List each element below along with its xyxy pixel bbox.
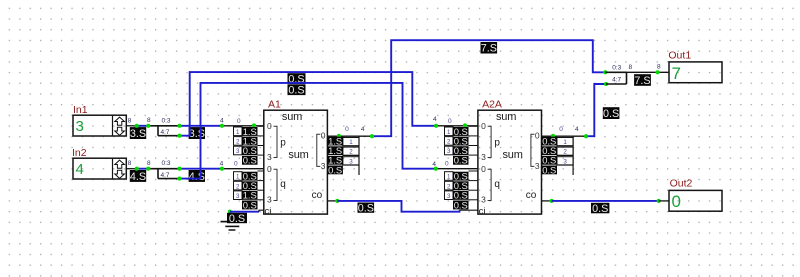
svg-text:8: 8 bbox=[128, 160, 132, 167]
svg-text:0.S: 0.S bbox=[542, 164, 556, 175]
A2A output pin cell 2 bbox=[557, 147, 573, 155]
svg-text:0: 0 bbox=[672, 192, 681, 211]
svg-text:4: 4 bbox=[361, 126, 365, 133]
node A2A p in bbox=[434, 124, 438, 128]
svg-text:0.S: 0.S bbox=[243, 199, 257, 210]
splitter S1 body bbox=[148, 125, 179, 127]
value display 0.S A1 input bit 4 bbox=[242, 172, 258, 181]
svg-text:3: 3 bbox=[563, 158, 567, 165]
svg-text:0.S: 0.S bbox=[229, 213, 245, 225]
svg-text:2: 2 bbox=[563, 149, 567, 156]
node In2 wire bbox=[135, 167, 139, 171]
node Out1 merger in 4:7 bbox=[604, 82, 608, 86]
wire to A1 q splitter bbox=[222, 168, 264, 170]
A1 input pin cell 2 bbox=[234, 137, 243, 146]
svg-text:4:7: 4:7 bbox=[160, 172, 169, 179]
svg-text:3: 3 bbox=[535, 161, 540, 171]
value display 7.S on sum bus bbox=[481, 42, 498, 54]
svg-text:0: 0 bbox=[234, 161, 238, 168]
value display 0.S A2A input bit 5 bbox=[453, 181, 469, 190]
node A1 ci bbox=[228, 210, 232, 214]
value display 7.S on Out1 wire bbox=[634, 74, 651, 86]
A2A input pin cell 1 bbox=[445, 127, 454, 136]
svg-text:0: 0 bbox=[481, 121, 486, 131]
value display 0.S A2A input bit 2 bbox=[453, 146, 469, 155]
value display 4.S on In2 bus bbox=[130, 170, 146, 182]
A1 output pin cell 2 bbox=[343, 147, 359, 155]
svg-text:0:3: 0:3 bbox=[161, 160, 170, 167]
A2A input pin stubs bbox=[469, 125, 478, 127]
svg-text:In2: In2 bbox=[72, 147, 87, 159]
value display 0.S A2A input bit 7 bbox=[453, 201, 469, 210]
svg-text:0: 0 bbox=[559, 126, 563, 133]
svg-text:In1: In1 bbox=[73, 104, 88, 116]
A2A input pin cell 3 bbox=[445, 146, 454, 155]
svg-text:0.S: 0.S bbox=[358, 203, 374, 215]
In2 spinner arrows bbox=[115, 160, 125, 168]
A1 input pin cell 1 bbox=[234, 172, 243, 181]
node A2A p splitter bbox=[463, 123, 467, 127]
A1 output comb bbox=[358, 136, 360, 175]
value display 4.S on nibble bbox=[189, 170, 205, 182]
wire A1 co stub bbox=[327, 200, 337, 202]
wire In1 output bbox=[126, 125, 136, 127]
svg-text:1: 1 bbox=[563, 139, 567, 146]
svg-text:0.S: 0.S bbox=[592, 203, 608, 215]
A2A bracket q bbox=[488, 169, 492, 200]
A1 output pin cell 1 bbox=[343, 138, 359, 146]
svg-text:0: 0 bbox=[448, 118, 452, 125]
svg-text:4: 4 bbox=[76, 161, 84, 178]
adder block A2A bbox=[478, 110, 542, 214]
svg-text:0: 0 bbox=[535, 130, 540, 140]
svg-text:ci: ci bbox=[265, 206, 272, 217]
wire In2 low nibble bbox=[180, 168, 223, 170]
svg-text:0: 0 bbox=[267, 164, 272, 174]
svg-text:sum: sum bbox=[503, 149, 523, 161]
svg-text:0.S: 0.S bbox=[328, 164, 342, 175]
wire A2A sum out line bbox=[542, 135, 588, 137]
value display 0.S A2A input bit 6 bbox=[453, 191, 469, 200]
A2A input pin cell 2 bbox=[445, 181, 454, 190]
svg-text:3: 3 bbox=[236, 193, 240, 200]
svg-text:0: 0 bbox=[321, 130, 326, 140]
svg-text:Out2: Out2 bbox=[670, 177, 693, 189]
svg-text:sum: sum bbox=[496, 111, 516, 123]
svg-text:A2A: A2A bbox=[482, 98, 502, 110]
svg-text:8: 8 bbox=[147, 117, 151, 124]
svg-text:1: 1 bbox=[236, 174, 240, 181]
svg-text:3: 3 bbox=[481, 194, 486, 204]
In1 spinner arrows bbox=[115, 117, 125, 125]
svg-text:sum: sum bbox=[288, 149, 308, 161]
wire A2A sum bus to Out1 merger bbox=[586, 84, 606, 136]
node S2 out 0:3 bbox=[177, 167, 181, 171]
A2A input pin cell 3 bbox=[445, 191, 454, 200]
node A1 p splitter bbox=[252, 123, 256, 127]
node Out1 merger in 0:3 bbox=[603, 70, 607, 74]
svg-text:3: 3 bbox=[481, 152, 486, 162]
svg-text:0.S: 0.S bbox=[288, 85, 304, 97]
svg-text:Out1: Out1 bbox=[668, 50, 691, 62]
value display 1.S A1 sum bit 0 bbox=[327, 137, 343, 146]
value display 1.S A1 input bit 6 bbox=[242, 191, 258, 200]
node A2A sum bus bbox=[584, 134, 588, 138]
A1 input pin cell 3 bbox=[234, 146, 243, 155]
output Out2 box bbox=[669, 190, 722, 211]
node Out2 in bbox=[657, 199, 661, 203]
svg-text:0: 0 bbox=[345, 126, 349, 133]
input In2 box bbox=[73, 158, 126, 179]
svg-text:0:3: 0:3 bbox=[612, 65, 621, 72]
svg-text:3.S: 3.S bbox=[189, 128, 205, 140]
A2A output comb bbox=[572, 136, 574, 175]
svg-text:4:7: 4:7 bbox=[160, 129, 169, 136]
svg-text:q: q bbox=[280, 179, 286, 190]
node S1 out 4:7 bbox=[177, 134, 181, 138]
value display 0.S A1 co bbox=[358, 203, 375, 213]
wire A1 co to A2A ci bbox=[337, 201, 459, 212]
wire stub into A2A q splitter bbox=[436, 168, 478, 170]
A1 input pin cell 3 bbox=[234, 191, 243, 200]
A1 input pin cell 1 bbox=[234, 127, 243, 136]
svg-text:0:3: 0:3 bbox=[161, 117, 170, 124]
svg-text:1: 1 bbox=[349, 139, 353, 146]
svg-text:1: 1 bbox=[236, 129, 240, 136]
node In1 bus bbox=[146, 124, 150, 128]
svg-text:0.S: 0.S bbox=[603, 108, 619, 120]
splitter S2 body bbox=[148, 168, 179, 170]
svg-text:2: 2 bbox=[447, 139, 451, 146]
node In2 bus bbox=[146, 167, 150, 171]
svg-text:4: 4 bbox=[433, 116, 437, 123]
A2A output pin cell 3 bbox=[557, 157, 573, 165]
A1 bracket p bbox=[274, 126, 278, 157]
svg-text:3: 3 bbox=[236, 148, 240, 155]
svg-text:3: 3 bbox=[267, 194, 272, 204]
A2A bracket p bbox=[488, 126, 492, 157]
svg-text:4: 4 bbox=[220, 160, 224, 167]
wire A1 ci bbox=[230, 211, 259, 213]
svg-text:4: 4 bbox=[575, 126, 579, 133]
svg-text:3: 3 bbox=[321, 161, 326, 171]
svg-text:4.S: 4.S bbox=[189, 171, 205, 183]
wire In2 bus segment bbox=[137, 168, 149, 170]
svg-text:3: 3 bbox=[447, 193, 451, 200]
svg-text:4: 4 bbox=[220, 118, 224, 125]
wire ground to ci bbox=[230, 212, 232, 222]
A1 input pin stubs bbox=[258, 125, 264, 127]
svg-text:4.S: 4.S bbox=[130, 171, 146, 183]
value display 1.S A1 sum bit 2 bbox=[327, 156, 343, 165]
svg-text:ci: ci bbox=[479, 206, 486, 217]
value display 0.S A2A input bit 3 bbox=[453, 156, 469, 165]
wire merger to Out1 bbox=[627, 71, 670, 73]
svg-text:8: 8 bbox=[628, 64, 632, 71]
value display 0.S A2A sum bit 0 bbox=[542, 137, 558, 146]
value display 0.S A1 ci bbox=[227, 213, 247, 223]
node A1 p in bbox=[220, 124, 224, 128]
A1 input pin cell 2 bbox=[234, 181, 243, 190]
svg-text:4:7: 4:7 bbox=[612, 76, 621, 83]
value display 0.S A1 input bit 3 bbox=[242, 156, 258, 165]
svg-text:q: q bbox=[494, 179, 500, 190]
wire A1 sum bus to Out1 merger bbox=[372, 40, 606, 136]
node A1 out bbox=[337, 134, 341, 138]
A1 bracket sum out bbox=[317, 134, 321, 166]
value display 3.S on In1 bus bbox=[130, 127, 146, 139]
value display 0.S A1 input bit 5 bbox=[242, 181, 258, 190]
wire In1 low nibble bbox=[180, 125, 223, 127]
wire In2 output bbox=[126, 168, 136, 170]
wire A2A co to Out2 bbox=[552, 200, 659, 202]
value display 0.S A2A sum bit 1 bbox=[542, 146, 558, 155]
value display 1.S A1 input bit 1 bbox=[242, 137, 258, 146]
node A2A out bbox=[551, 134, 555, 138]
wire A2A ci stub bbox=[460, 209, 478, 211]
value display 0.S A2A input bit 1 bbox=[453, 137, 469, 146]
svg-text:A1: A1 bbox=[268, 98, 281, 110]
value display 0.S on In1 high nibble bbox=[288, 73, 306, 84]
svg-text:p: p bbox=[280, 137, 286, 148]
svg-text:2: 2 bbox=[447, 183, 451, 190]
A2A input pin cell 2 bbox=[445, 137, 454, 146]
svg-text:3: 3 bbox=[267, 152, 272, 162]
wire stub into A2A p splitter bbox=[436, 125, 478, 127]
input In1 box bbox=[73, 115, 126, 136]
wire A2A co stub bbox=[542, 200, 552, 202]
svg-text:0: 0 bbox=[267, 121, 272, 131]
svg-text:1: 1 bbox=[447, 129, 451, 136]
svg-text:2: 2 bbox=[236, 183, 240, 190]
value display 1.S A1 sum bit 1 bbox=[327, 146, 343, 155]
A2A bracket sum out bbox=[531, 134, 535, 166]
svg-text:co: co bbox=[312, 190, 323, 201]
value display 0.S A2A input bit 0 bbox=[453, 127, 469, 136]
value display 0.S A1 input bit 7 bbox=[242, 201, 258, 210]
svg-text:7.S: 7.S bbox=[481, 43, 497, 55]
value display 0.S A1 sum bit 3 bbox=[327, 166, 343, 175]
wire In1 high nibble to A2A p bbox=[180, 72, 437, 136]
output Out1 box bbox=[669, 62, 722, 83]
ground bbox=[221, 221, 242, 223]
node A2A co bbox=[550, 199, 554, 203]
wire to A1 p splitter bbox=[222, 125, 264, 127]
svg-text:p: p bbox=[494, 137, 500, 148]
svg-text:3: 3 bbox=[76, 118, 84, 135]
adder block A1 bbox=[264, 110, 328, 214]
svg-text:2: 2 bbox=[349, 149, 353, 156]
A2A output pin cell 1 bbox=[557, 138, 573, 146]
svg-text:3: 3 bbox=[447, 148, 451, 155]
svg-text:3.S: 3.S bbox=[130, 128, 146, 140]
value display 0.S A2A sum bit 3 bbox=[542, 166, 558, 175]
value display 0.S A2A sum bus bbox=[603, 107, 620, 119]
svg-text:0: 0 bbox=[481, 164, 486, 174]
svg-text:3: 3 bbox=[349, 158, 353, 165]
svg-text:8: 8 bbox=[657, 64, 661, 71]
value display 0.S A2A sum bit 2 bbox=[542, 156, 558, 165]
svg-text:2: 2 bbox=[236, 139, 240, 146]
wire In1 bus segment bbox=[137, 125, 149, 127]
svg-text:0.S: 0.S bbox=[243, 155, 257, 166]
value display 0.S A2A input bit 4 bbox=[453, 172, 469, 181]
svg-text:co: co bbox=[526, 190, 537, 201]
svg-text:0: 0 bbox=[445, 161, 449, 168]
A1 bracket q bbox=[274, 169, 278, 200]
svg-text:0.S: 0.S bbox=[454, 199, 468, 210]
svg-text:7.S: 7.S bbox=[634, 75, 650, 87]
svg-text:0: 0 bbox=[237, 118, 241, 125]
A1 output pin cell 3 bbox=[343, 157, 359, 165]
value display 0.S on Out2 wire bbox=[591, 203, 609, 214]
node In1 wire bbox=[135, 124, 139, 128]
svg-text:0.S: 0.S bbox=[454, 155, 468, 166]
svg-text:8: 8 bbox=[147, 160, 151, 167]
svg-text:sum: sum bbox=[282, 111, 302, 123]
svg-text:7: 7 bbox=[672, 64, 681, 83]
svg-text:1: 1 bbox=[447, 174, 451, 181]
svg-text:8: 8 bbox=[128, 117, 132, 124]
value display 0.S on In2 high nibble bbox=[288, 84, 306, 95]
node S1 out 0:3 bbox=[177, 124, 181, 128]
wire into Out2 bbox=[659, 200, 669, 202]
wire A1 sum out line bbox=[327, 135, 373, 137]
node A1 co bbox=[335, 199, 339, 203]
value display 0.S A1 input bit 2 bbox=[242, 146, 258, 155]
wire In2 high nibble to A2A q bbox=[180, 83, 436, 179]
node A1 q in bbox=[220, 167, 224, 171]
node A1 sum bus bbox=[370, 134, 374, 138]
value display 1.S A1 input bit 0 bbox=[242, 127, 258, 136]
value display 3.S on nibble bbox=[189, 127, 205, 139]
A2A input pin cell 1 bbox=[445, 172, 454, 181]
node Out1 in bbox=[656, 70, 660, 74]
node S2 out 4:7 bbox=[177, 177, 181, 181]
node A2A q in bbox=[434, 167, 438, 171]
merger M1 body bbox=[605, 71, 626, 73]
